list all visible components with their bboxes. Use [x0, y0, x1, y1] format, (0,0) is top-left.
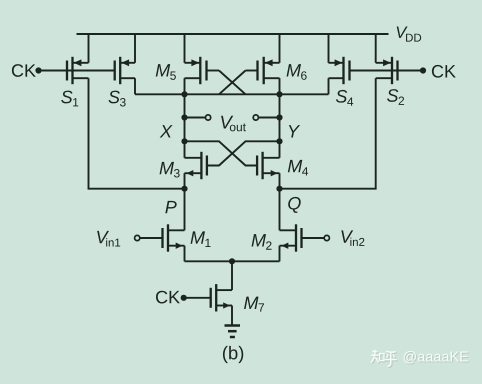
label M2: [252, 234, 272, 250]
label Vout: [221, 116, 246, 132]
node X cross tap dot: [181, 138, 187, 144]
wire Vin2 to M2 gate: [302, 237, 325, 239]
label Y: [289, 125, 300, 137]
wire VDD rail: [77, 33, 389, 35]
wire CK left gate line: [39, 70, 115, 72]
label (b) caption: [223, 346, 243, 363]
transistor M7: [211, 284, 232, 311]
wire M6 gate cross-couple diagonal to X side: [219, 71, 246, 95]
wire M6 source to VDD: [279, 34, 281, 63]
transistor M6: [258, 57, 280, 84]
wire X column vertical: [184, 94, 186, 158]
node tail junction dot: [229, 258, 235, 264]
node CK bottom dot: [181, 295, 187, 301]
label M6: [287, 64, 307, 80]
label S2: [387, 89, 404, 105]
node Q junction dot: [276, 186, 282, 192]
label M4: [288, 160, 308, 176]
wire M6 drain to node Y: [279, 78, 281, 94]
label M1: [191, 231, 211, 247]
transistor M1: [163, 224, 185, 251]
transistor M3: [185, 152, 207, 179]
wire S2 drain down to node Q: [280, 78, 376, 189]
wire S3 source to VDD: [134, 34, 136, 63]
node Y Vout tap dot: [276, 114, 282, 120]
wire tail to M7 drain: [231, 261, 233, 290]
terminal Vin1 open circle: [135, 235, 140, 240]
label M3: [160, 162, 180, 178]
wire S3 drain down to X row: [134, 78, 136, 94]
label X: [160, 125, 173, 137]
wire M2 source down to tail node: [279, 246, 281, 262]
wire Y column vertical: [279, 94, 281, 158]
node X junction dot: [181, 91, 187, 97]
transistor S4: [329, 57, 350, 84]
label Q: [288, 197, 301, 213]
label S4: [336, 90, 353, 106]
wire S2 source to VDD: [375, 34, 377, 63]
wire M6 gate stub: [246, 70, 258, 72]
label S1: [61, 91, 78, 107]
transistor M5: [185, 57, 207, 84]
wire S1 source to VDD: [88, 34, 90, 63]
node Y junction dot: [276, 91, 282, 97]
transistor S1: [67, 57, 89, 84]
label P: [165, 201, 176, 213]
wire node X to M4 gate cross-couple: [185, 141, 258, 165]
wire node Q vertical to M2 drain: [279, 189, 281, 231]
label CK left: [12, 64, 36, 77]
label Vin1: [97, 231, 120, 247]
label VDD: [397, 27, 421, 42]
wire tail node horizontal: [185, 260, 280, 262]
wire Vout left stub: [185, 117, 206, 119]
transistor S3: [115, 57, 135, 84]
wire S1 drain down to node P: [89, 78, 185, 189]
label CK right: [432, 65, 456, 78]
transistor M2: [280, 224, 302, 251]
wire M5 drain to node X: [184, 78, 186, 94]
wire S4 drain down to X row: [328, 78, 330, 94]
wire CK to M7 gate: [184, 297, 211, 299]
wire X-Y node row horizontal: [135, 93, 329, 95]
wire M4 source corner to node Q: [279, 173, 281, 189]
node Y cross tap dot: [276, 138, 282, 144]
node CK left junction dot: [35, 67, 41, 73]
wire node P vertical to M1 drain: [184, 189, 186, 231]
watermark zhihu @aaaaKE: [371, 350, 469, 368]
label CK bottom: [156, 291, 180, 304]
node CK right junction dot: [420, 67, 426, 73]
node X Vout tap dot: [181, 114, 187, 120]
label Vin2: [341, 230, 364, 246]
wire CK right gate line: [350, 70, 424, 72]
wire M5 source to VDD: [184, 34, 186, 63]
wire M5 gate stub: [207, 70, 220, 72]
terminal Vout left open circle: [206, 115, 211, 120]
wire node Y to M3 gate cross-couple: [207, 141, 280, 165]
wire S4 source to VDD: [328, 34, 330, 63]
wire M1 source down to tail node: [184, 246, 186, 262]
ground symbol: [225, 326, 241, 338]
transistor S2: [376, 57, 398, 84]
transistor M4: [257, 152, 279, 179]
wire Vin1 to M1 gate: [140, 237, 163, 239]
label S3: [109, 91, 126, 107]
label M5: [156, 64, 176, 80]
terminal Vin2 open circle: [324, 235, 329, 240]
label M7: [244, 297, 264, 312]
wire M3 source corner to node P: [184, 173, 186, 189]
terminal Vout right open circle: [253, 115, 258, 120]
wire M7 source to ground: [231, 306, 233, 326]
wire Vout right stub: [258, 117, 279, 119]
wire M5 gate cross-couple diagonal to Y side: [219, 71, 246, 95]
node P junction dot: [181, 186, 187, 192]
